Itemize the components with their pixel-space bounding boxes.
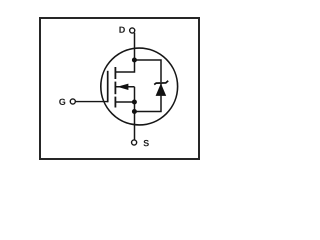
transistor Q1 envelope (101, 48, 178, 125)
node drain junction (132, 58, 137, 63)
wire diode bottom branch (135, 83, 162, 112)
terminal D pin (130, 28, 135, 33)
transistor Q1 body arrow (117, 84, 128, 90)
wire diode top branch (135, 60, 162, 82)
terminal G pin (70, 99, 75, 104)
transistor Q1 gate bar (107, 71, 109, 103)
transistor Q1 channel body segment (114, 82, 116, 95)
wire source stub (115, 101, 135, 103)
body diode D1 cathode bar (154, 81, 168, 85)
wire body stub (115, 86, 135, 88)
wire source terminal lead (134, 102, 136, 140)
label D (119, 27, 125, 33)
wire drain stub (115, 60, 135, 72)
wire body to source (134, 87, 136, 102)
wire drain terminal lead (134, 33, 136, 60)
node source junction (132, 100, 137, 105)
label G (59, 99, 65, 105)
transistor Q1 channel drain segment (114, 67, 116, 79)
label S (143, 140, 148, 146)
body diode D1 triangle (156, 83, 167, 96)
wire gate lead (76, 101, 108, 103)
node diode source junction (132, 109, 137, 114)
terminal S pin (132, 140, 137, 145)
transistor Q1 channel source segment (114, 97, 116, 108)
